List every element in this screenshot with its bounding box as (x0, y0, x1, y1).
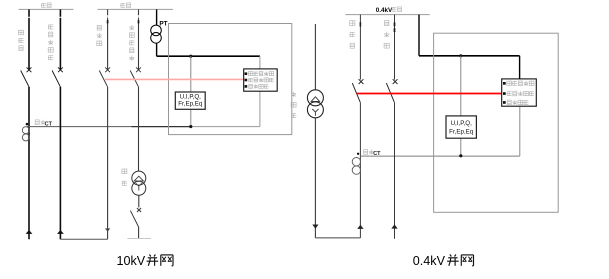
arrow pv-column up (57, 230, 64, 234)
caption 0.4kV 并网 (413, 254, 474, 268)
PT voltage transformer (151, 25, 162, 43)
breaker QF4 (distribution line cabinet) (130, 67, 141, 86)
wire voltage line left (157, 55, 260, 57)
boundary box right diagram (434, 33, 559, 212)
wire gridconn2 lower (394, 102, 396, 239)
label PT (159, 21, 167, 28)
label cabinet2 光伏接入柜 (48, 25, 53, 60)
wire meter drop right (460, 56, 462, 156)
breaker QF1 (incoming cabinet) (21, 67, 32, 86)
arrow T2 down (312, 225, 318, 229)
wire dist-transformer bottom (314, 118, 316, 238)
net 0.4kV busbar (345, 14, 429, 16)
wire gridconn lower (107, 87, 109, 240)
meter U,I,P,Q box left (175, 92, 205, 109)
terminal bar under T1 (127, 238, 151, 240)
svg-text:Fr,Ep,Eq: Fr,Ep,Eq (178, 101, 203, 108)
caption 10kV 并网 (117, 254, 174, 268)
node CT1 tap (26, 123, 29, 126)
net 10kV busbar 1 (left bus) (19, 8, 74, 10)
svg-text:0.4kV: 0.4kV (413, 254, 446, 268)
transformer T1 箱变 (132, 171, 146, 195)
label cabinet1 进线柜 (18, 30, 23, 50)
wire dist-transformer top (314, 24, 316, 90)
label 测量CT (left) (35, 120, 52, 128)
wire relay to CT right (519, 106, 521, 156)
wire T2 to incoming link (315, 237, 360, 239)
meter U,I,P,Q box right (446, 116, 476, 138)
relay row1 低功率保护 (245, 71, 274, 75)
node meter-CT junction right (459, 154, 462, 157)
wire T1 bottom (138, 227, 140, 239)
node CT2 tap (357, 153, 359, 155)
net 10kV busbar 2 (right bus) (98, 8, 174, 10)
node meter-CT junction left (189, 125, 192, 128)
wire pv link bottom (60, 238, 107, 240)
disconnect switch below T1 (130, 208, 141, 227)
wire CT2 measurement line (360, 155, 519, 157)
svg-text:Fr,Ep,Eq: Fr,Ep,Eq (449, 128, 474, 135)
wire gridconn upper (107, 9, 109, 69)
trip line (pink) left (105, 78, 244, 80)
wire voltage line right (419, 55, 520, 57)
wire incoming2 lower (359, 102, 361, 238)
label busbar2 母线 (120, 3, 130, 8)
wire feeder1 upper (28, 9, 30, 69)
CT2 coil (352, 158, 360, 175)
breaker QF6 (0.4kV grid-connection) (386, 79, 397, 102)
wire pv-column lower (59, 87, 61, 240)
wire voltage tap drop (418, 15, 420, 56)
node voltage junction left (189, 55, 192, 58)
wire incoming2 upper (359, 15, 361, 80)
wire voltage to relay right (519, 56, 521, 79)
label T2 配电变 (291, 92, 296, 118)
arrow incoming2 up (357, 225, 363, 229)
breaker QF2 (PV access cabinet) (52, 67, 63, 86)
wire distline mid (138, 87, 140, 172)
wire PT drop (156, 9, 158, 25)
node voltage junction right (459, 54, 462, 57)
wire distline upper (138, 9, 140, 69)
transformer T2 配电变 (307, 90, 323, 118)
svg-text:PT: PT (159, 21, 167, 28)
arrow gridconn2 up (391, 224, 397, 228)
boundary box left diagram (169, 24, 292, 135)
wire PT to bus line (156, 43, 158, 56)
relay2 row1 低功率保护 (503, 81, 534, 86)
label cabinet3 并网柜 (97, 25, 102, 45)
relay2 row2 逆功率保护 (503, 91, 534, 96)
label cabinet5 进线柜 (350, 21, 356, 49)
svg-text:0.4kV: 0.4kV (376, 7, 393, 14)
wire feeder1 lower (28, 87, 30, 240)
label cabinet4 配电线路柜 (129, 25, 134, 60)
CT1 coil (22, 127, 29, 141)
wire relay drop left (259, 56, 261, 126)
label busbar1 母线 (41, 3, 51, 8)
svg-text:U,I,P,Q,: U,I,P,Q, (451, 120, 472, 127)
label 0.4kV母线 (376, 7, 402, 14)
breaker QF3 (grid-connection cabinet) (99, 67, 110, 86)
protection relay box right (502, 79, 537, 106)
wire CT1 measurement line (27, 126, 191, 128)
label 测量CT (right) (364, 150, 382, 158)
relay row2 逆功率保护 (245, 78, 274, 82)
arrow gridconn down (105, 228, 110, 231)
wire pv-column upper (59, 9, 61, 69)
relay row3 功率恢复 (245, 84, 269, 88)
protection relay box left (244, 69, 278, 91)
trip line (red) right (357, 93, 502, 95)
wire T1 to switch (138, 195, 140, 207)
drawout marks incoming2 (359, 22, 361, 26)
arrow feeder1 up (26, 230, 33, 234)
wire gridconn2 upper (394, 15, 396, 80)
svg-text:U,I,P,Q,: U,I,P,Q, (180, 94, 201, 101)
wire CT1 line grey segment (191, 126, 260, 128)
wire meter drop left (190, 56, 192, 126)
drawout marks gridconn2 (394, 22, 396, 32)
label cabinet6 并网柜 (384, 21, 389, 48)
svg-text:10kV: 10kV (117, 254, 146, 268)
label T1 箱变 (122, 169, 127, 185)
breaker QF5 (0.4kV incoming) (352, 79, 363, 102)
relay2 row3 功率恢复 (503, 100, 529, 105)
